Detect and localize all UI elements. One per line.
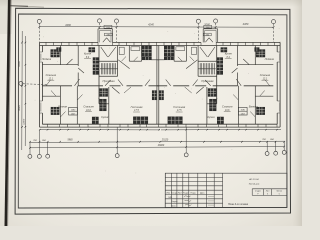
left unit: hall partition below stairs (99, 103, 109, 105)
centre party wall (157, 46, 159, 125)
svg-text:Кухня: Кухня (225, 52, 233, 56)
right unit: bathroom walls (197, 46, 199, 62)
title block outline (165, 173, 287, 207)
left dimension line (21, 31, 23, 150)
axis circle 2 (top) (97, 19, 101, 23)
dark corner shading top-left (0, 0, 12, 34)
axis circle 3 (bottom) (46, 154, 50, 158)
axis circle 4 (bottom) (115, 154, 119, 158)
svg-text:1100: 1100 (206, 27, 210, 29)
axis circle 8 (bottom) (282, 150, 286, 154)
svg-text:Лист: Лист (178, 193, 182, 195)
right unit: vent shaft near centre wall (159, 91, 163, 100)
svg-text:АС-12-04: АС-12-04 (249, 178, 259, 181)
svg-text:5: 5 (279, 194, 280, 196)
svg-text:Изм: Изм (166, 193, 170, 195)
left unit: closet grid top-left (51, 50, 60, 57)
right edge shading (292, 0, 302, 226)
svg-text:Ванная: Ванная (249, 105, 258, 109)
svg-text:Разраб.: Разраб. (171, 201, 178, 203)
right unit: entrance porch (203, 28, 218, 30)
svg-text:N док: N док (183, 193, 188, 195)
signature squiggles (184, 196, 191, 206)
scan smudge top-left (10, 5, 28, 8)
left unit: main cross wall (42, 85, 158, 87)
svg-text:2080: 2080 (206, 34, 210, 36)
right unit: main cross wall (157, 85, 273, 87)
left unit: ventilation stack beside stair (93, 58, 99, 64)
right unit: staircase treads (200, 63, 214, 74)
left unit: staircase treads (101, 63, 115, 74)
left unit: kitchen counter block (89, 48, 95, 52)
right unit: storeroom walls top-left (254, 46, 256, 65)
bottom axis connectors (30, 127, 284, 154)
svg-text:Жилой дом: Жилой дом (249, 183, 260, 186)
left unit: stair landing line (100, 68, 118, 70)
right unit: stairwell walls (216, 46, 218, 104)
right unit: vent marker box (238, 107, 247, 115)
right unit: kitchen counter block (221, 48, 227, 52)
right unit: ventilation stack beside stair (217, 58, 223, 64)
axis circle 6 (bottom) (265, 152, 269, 156)
left unit: door swings (75, 79, 80, 86)
axis line 6 (272, 24, 274, 43)
top exterior wall inner line (40, 45, 281, 47)
svg-text:Пров.: Пров. (171, 205, 176, 207)
axis circle 1 (bottom) (28, 154, 32, 158)
svg-text:17,5: 17,5 (177, 109, 182, 112)
left unit: vent shaft near centre wall (152, 91, 156, 100)
date squiggles (208, 197, 214, 206)
right unit: bathroom fixtures (192, 47, 197, 54)
outer frame (15, 8, 290, 214)
left unit: storeroom walls top-left (59, 46, 61, 65)
svg-text:Спальня: Спальня (222, 105, 233, 109)
axis circle 3 (top) (114, 19, 118, 23)
top dimension line (39, 26, 273, 29)
right unit: hall partition below stairs (207, 103, 217, 105)
left unit: porch door swing (103, 38, 107, 42)
stage/sheet cells (252, 189, 287, 196)
right unit: stair entry door swing (208, 47, 215, 57)
title block left table vertical lines (171, 173, 222, 207)
right unit: closet grid top-left (256, 50, 265, 57)
right unit: porch door swing (209, 38, 213, 42)
axis circle 1 (top) (37, 19, 41, 23)
axis circle B (left) (19, 81, 23, 85)
left exterior wall (40, 42, 43, 127)
svg-text:12,1: 12,1 (48, 77, 53, 80)
right unit: counter block by window (255, 48, 259, 52)
axis line 5 (215, 23, 217, 29)
svg-text:25120: 25120 (161, 139, 169, 141)
sub dimension line under bottom wall right (161, 128, 281, 131)
right unit: bottom-left partitions (254, 86, 256, 124)
title block right divider (251, 189, 253, 196)
right unit: kitchen fixtures bottom (208, 89, 216, 97)
svg-text:12800: 12800 (24, 118, 26, 125)
svg-text:Лоджия: Лоджия (41, 57, 52, 61)
bottom exterior wall outer line (40, 126, 281, 128)
right unit: fixture grid at bottom wall (217, 117, 223, 124)
sub dimension line under bottom wall (40, 129, 160, 131)
left unit: fixture grid bottom-left (51, 107, 59, 114)
svg-text:6400: 6400 (18, 61, 21, 67)
left unit: bottom-left partitions (59, 86, 61, 124)
svg-text:1100: 1100 (106, 27, 110, 29)
svg-text:Спальня: Спальня (83, 105, 94, 109)
title block left table horizontal lines (165, 178, 222, 204)
right unit: fixture grid bottom-left (257, 107, 265, 114)
svg-text:Лист: Лист (266, 191, 270, 193)
top edge shading (0, 0, 302, 7)
dimension row 2 (30, 147, 284, 148)
page fold shadow (left edge) (6, 0, 9, 226)
svg-text:Спальня: Спальня (46, 73, 57, 77)
top wall window jambs (46, 42, 275, 45)
left unit: counter block by window (57, 48, 61, 52)
axis circle 2 (bottom) (37, 154, 41, 158)
left unit: fixture grid at bottom wall (92, 117, 98, 124)
svg-text:Кухня: Кухня (101, 115, 109, 119)
left unit: stairwell walls (98, 46, 100, 104)
left unit: entrance porch (98, 28, 113, 30)
svg-text:Гостиная: Гостиная (131, 105, 143, 109)
axis line 1 (38, 24, 40, 43)
svg-text:10,6: 10,6 (86, 109, 91, 112)
axis line 3 (116, 23, 118, 42)
svg-text:План 4-го этажа: План 4-го этажа (228, 203, 249, 206)
axis circle 5 (top) (214, 19, 218, 23)
axis circle 7 (bottom) (274, 151, 278, 155)
svg-text:Спальня: Спальня (260, 73, 271, 77)
svg-text:5980: 5980 (67, 140, 73, 142)
svg-text:17,5: 17,5 (134, 109, 139, 112)
inner frame (18, 14, 287, 208)
axis line B (23, 83, 48, 86)
svg-text:Прихожая: Прихожая (201, 79, 214, 83)
left wall window sills (40, 52, 43, 113)
svg-text:10,6: 10,6 (225, 109, 230, 112)
left unit: bathroom fixtures (119, 47, 124, 54)
svg-text:Ванная: Ванная (58, 105, 67, 109)
left unit: stair entry door swing (101, 47, 108, 57)
axis circle 5 (bottom) (184, 153, 188, 157)
svg-text:Кол.уч: Кол.уч (171, 193, 177, 195)
axis line 4 (197, 23, 199, 42)
right unit: sanitary vent block near centre (164, 46, 174, 56)
right wall window sills (277, 52, 280, 113)
dimension row 1 (30, 141, 284, 142)
axis circle 6 (top) (271, 20, 275, 24)
left unit: porch dimension boxes (104, 25, 112, 28)
svg-text:4380: 4380 (243, 22, 249, 26)
svg-text:4380: 4380 (65, 23, 71, 27)
left dimension line 2 (24, 36, 26, 146)
svg-text:Стадия: Стадия (255, 191, 261, 193)
svg-text:3: 3 (267, 194, 268, 196)
right unit: stair landing line (198, 68, 216, 70)
left unit: vent marker box (69, 107, 78, 115)
svg-text:6020: 6020 (18, 105, 21, 111)
svg-text:Кухня: Кухня (84, 52, 92, 56)
left unit: sanitary vent block near centre (142, 46, 152, 56)
scan speckles (35, 29, 281, 196)
bottom exterior wall inner line (42, 123, 277, 125)
left unit: bathroom walls (117, 46, 119, 62)
axis circle 4 (top) (196, 19, 200, 23)
axis line 2 (99, 23, 101, 29)
bottom wall window jambs (48, 124, 278, 127)
svg-text:Прихожая: Прихожая (102, 79, 115, 83)
svg-text:Листов: Листов (276, 191, 282, 193)
svg-text:26000: 26000 (157, 145, 165, 147)
right exterior wall (277, 42, 280, 127)
svg-text:Кухня: Кухня (208, 115, 216, 119)
top exterior wall outer line (40, 41, 281, 43)
left unit: bedroom/kitchen partition (77, 46, 79, 67)
right unit: bedroom/kitchen partition (237, 46, 239, 67)
left unit: kitchen fixtures bottom (100, 89, 108, 97)
right unit: porch dimension boxes (204, 25, 212, 28)
svg-text:Подп.: Подп. (191, 193, 197, 195)
svg-text:Гостиная: Гостиная (173, 105, 185, 109)
svg-text:2080: 2080 (107, 34, 111, 36)
right unit: door swings (236, 79, 241, 86)
svg-text:12,1: 12,1 (263, 77, 268, 80)
svg-text:Лоджия: Лоджия (264, 57, 275, 61)
svg-text:4240: 4240 (148, 22, 154, 26)
